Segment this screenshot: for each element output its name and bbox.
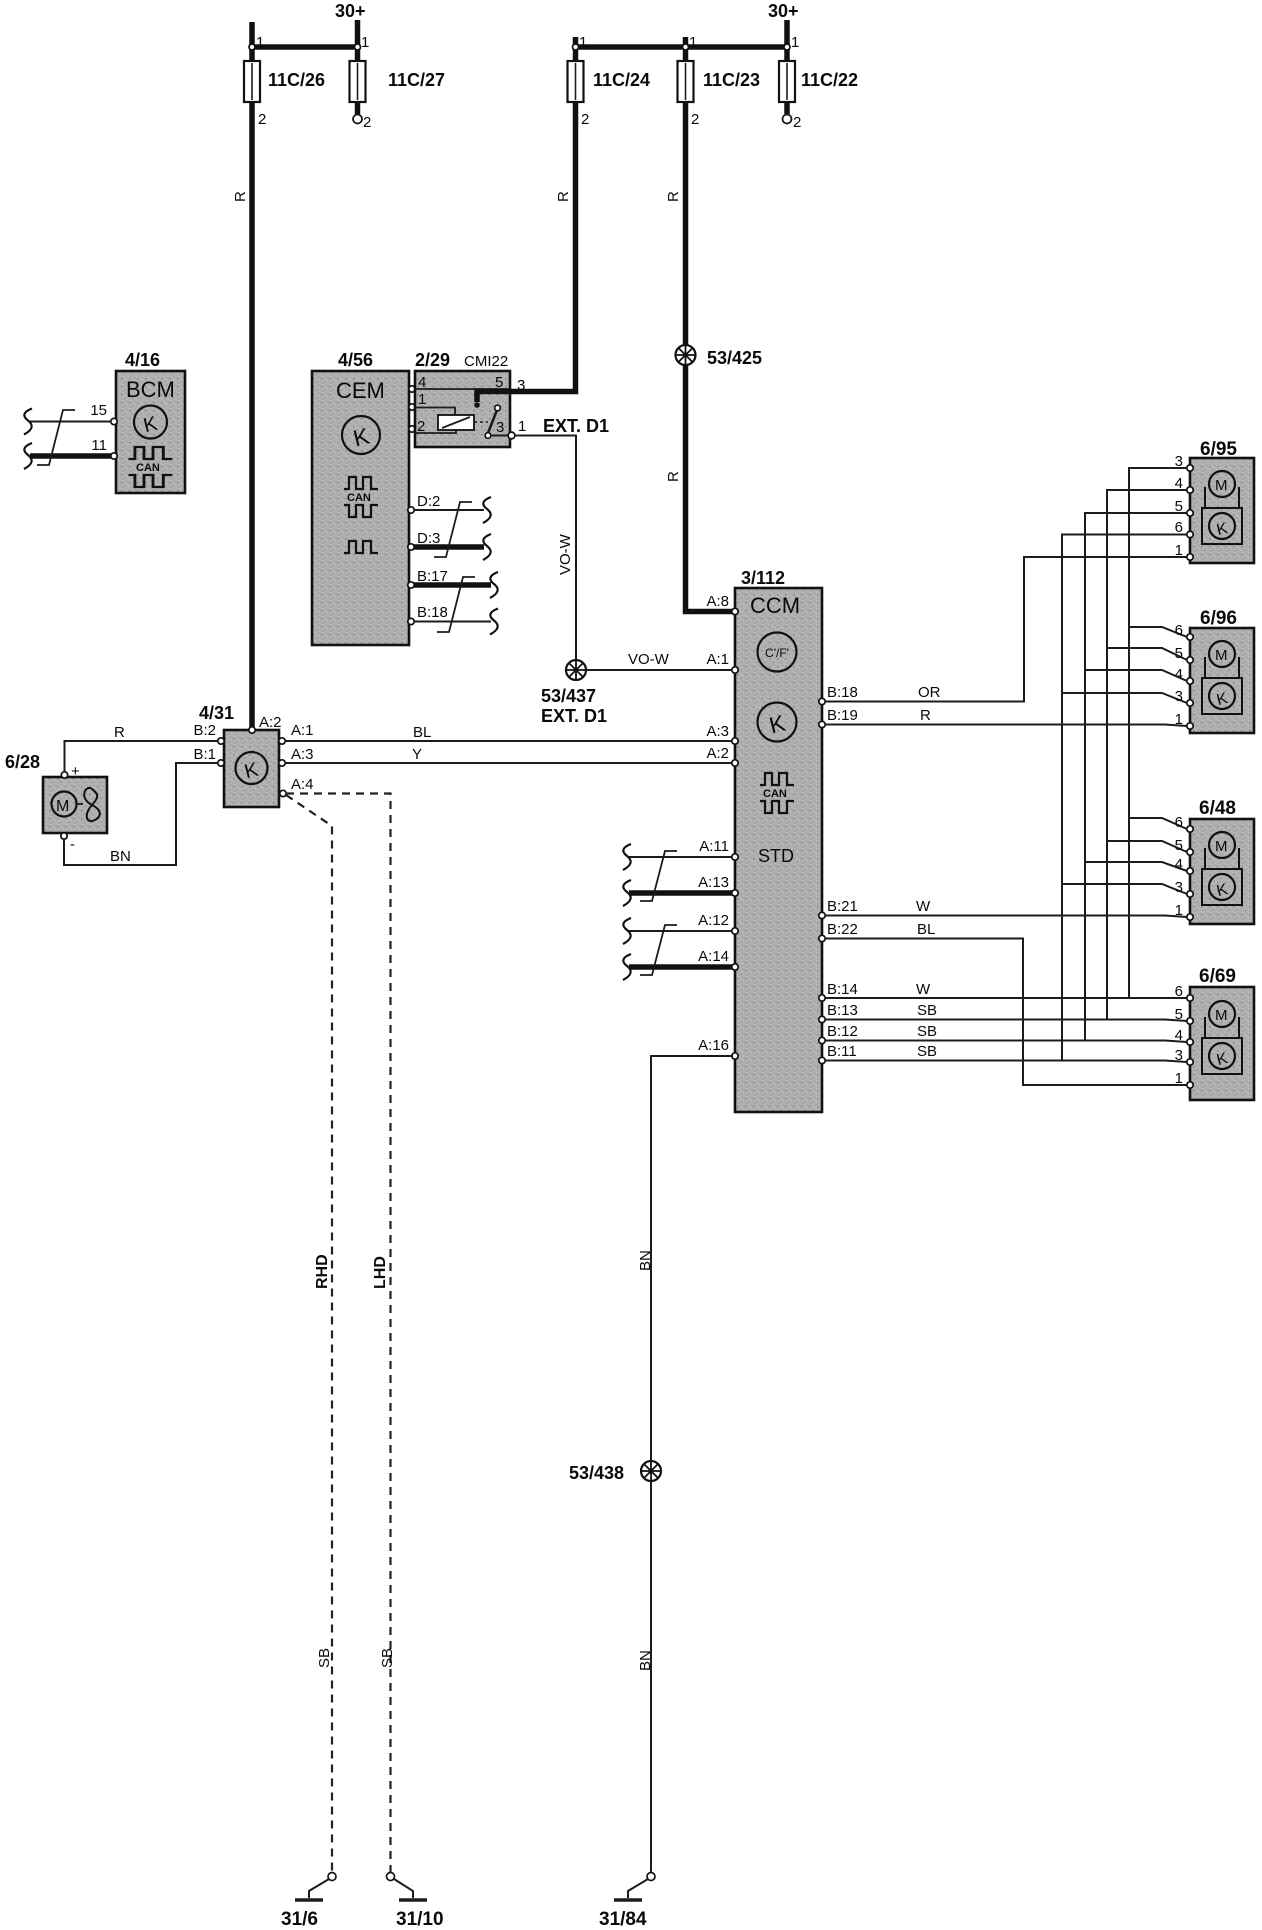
motor M symbol [1209,1001,1235,1027]
pin to 2/29:2 [409,426,415,432]
svg-text:SB: SB [917,1043,937,1060]
plus terminal [61,772,67,778]
pin 6 [1187,995,1193,1001]
wire pin 11 (thick) [30,453,111,459]
pin B:1 [218,760,224,766]
fuse 11C/23 [678,61,694,102]
svg-text:3: 3 [1175,1047,1183,1064]
wire R from 6/28 plus to 4/31 B:2 [65,741,219,772]
dashed wire RHD from A:4 [286,795,332,1873]
svg-text:A:2: A:2 [259,714,282,731]
svg-text:4/16: 4/16 [125,350,160,370]
svg-text:+: + [71,763,80,780]
svg-text:4/31: 4/31 [199,703,234,723]
wire B:17 (thick) [414,582,491,588]
svg-text:RHD: RHD [314,1254,331,1289]
pin B:12 [819,1037,825,1043]
svg-text:A:3: A:3 [706,723,729,740]
svg-text:6/48: 6/48 [1199,798,1236,819]
svg-text:CAN: CAN [347,492,371,504]
K box symbol [1202,678,1242,714]
svg-text:3: 3 [517,377,525,394]
pin 5 [1187,1018,1193,1024]
K box symbol [1202,869,1242,905]
svg-text:5: 5 [1175,498,1183,515]
pulse symbol CEM [344,541,378,553]
svg-text:CCM: CCM [750,593,800,618]
pin to 2/29:4 [409,386,415,392]
fuse 11C/27 [350,61,366,102]
svg-text:M: M [1215,838,1228,855]
svg-text:SB: SB [316,1648,333,1668]
svg-text:1: 1 [1175,542,1183,559]
svg-text:BN: BN [637,1650,654,1671]
svg-text:31/6: 31/6 [281,1909,318,1930]
pin B:11 [819,1057,825,1063]
wire pin 15 [30,421,111,423]
branch to 6/96 pin3 [1062,693,1187,703]
node pin1 11C/22 [784,44,790,50]
pin 3 [1187,891,1193,897]
wire BN from CCM A:16 to ground 31/84 [651,1056,733,1872]
bus wire vertical to 6/95 pin5 [1085,513,1187,1041]
wire top stub fuse 11C/26 [249,22,255,61]
CAN symbol CCM [760,773,794,785]
pin B:18 CEM [408,618,414,624]
internal divider row 3 [415,430,456,433]
wire 30+ to fuse 11C/27 [355,20,361,61]
wire W CCM B:14 to 6/69 pin6 [825,997,1187,999]
ground 31/84 [647,1873,655,1881]
K symbol CCM [758,703,797,742]
pin D:2 CEM [408,507,414,513]
svg-text:-: - [70,836,75,853]
pin 6 [1187,531,1193,537]
pin A:8 [732,608,738,614]
wire SB CCM B:12 to 6/69 pin4 [825,1041,1187,1043]
svg-text:4/56: 4/56 [338,350,373,370]
pin A:12 [732,928,738,934]
relay switch contact (thick stub) [477,392,511,403]
svg-text:11C/26: 11C/26 [268,70,325,90]
pin 3 [1187,1059,1193,1065]
wire BN from 6/28 minus to 4/31 B:1 [64,763,218,865]
pin A:3 [732,738,738,744]
K symbol BCM [134,406,167,439]
svg-text:B:11: B:11 [827,1043,857,1060]
motor M symbol [1209,471,1235,497]
svg-text:6/69: 6/69 [1199,966,1236,987]
pin B:17 CEM [408,582,414,588]
coil to switch dashed link [474,421,488,423]
ground 31/10 [387,1873,395,1881]
ground 31/6 [328,1873,336,1881]
svg-text:1: 1 [579,34,587,51]
svg-text:CMI22: CMI22 [464,353,508,370]
svg-text:1: 1 [791,34,799,51]
pin 1 [1187,914,1193,920]
bus wire left group [252,44,358,50]
wire R from 11C/24 to 2/29 pin 5 [511,102,576,392]
wire VO-W from splice to CCM A:1 [586,669,734,671]
svg-text:B:12: B:12 [827,1023,858,1040]
K box symbol [1202,508,1242,544]
svg-text:B:18: B:18 [417,604,448,621]
svg-text:2: 2 [793,114,801,131]
pin A:3 [279,760,285,766]
dashed wire LHD from A:4 [286,794,391,1874]
branch to 6/48 pin3 [1062,884,1187,894]
svg-text:1: 1 [418,391,426,408]
svg-text:BCM: BCM [126,377,175,402]
pin A:1 [732,667,738,673]
svg-text:6: 6 [1175,814,1183,831]
svg-text:6/28: 6/28 [5,752,40,772]
svg-text:3: 3 [1175,879,1183,896]
link M to fan [77,803,83,805]
svg-text:A:16: A:16 [698,1037,729,1054]
pin A:2 [732,760,738,766]
bus wire vertical to 6/95 pin4 [1107,490,1187,1020]
svg-text:SB: SB [917,1023,937,1040]
wire SB CCM B:11 to 6/69 pin3 [825,1061,1187,1063]
wire SB CCM B:13 to 6/69 pin5 [825,1020,1187,1022]
pin B:19 [819,721,825,727]
pin 3 [1187,700,1193,706]
pin B:13 [819,1016,825,1022]
svg-text:30+: 30+ [335,1,366,21]
fuse 11C/26 [244,61,260,102]
node pin1 11C/24 [573,44,579,50]
wire D:2 [414,509,484,511]
svg-text:A:8: A:8 [706,593,729,610]
wire R from 11C/23 to CCM A:8 [686,102,735,612]
pin D:3 CEM [408,544,414,550]
pin A:1 [279,738,285,744]
splice 53/438 [641,1461,661,1481]
svg-text:4: 4 [1175,475,1183,492]
svg-text:M: M [1215,647,1228,664]
minus terminal [61,833,67,839]
wire W CCM B:21 to 6/48 pin1 [825,916,1187,918]
svg-text:W: W [916,898,931,915]
pin A:14 [732,964,738,970]
relay switch arm [488,410,497,433]
svg-text:11C/27: 11C/27 [388,70,445,90]
pin 6 [1187,634,1193,640]
pin to 2/29:1 [409,404,415,410]
internal divider row 2 [415,408,455,416]
svg-text:EXT. D1: EXT. D1 [541,706,607,726]
fuse 11C/24 [568,61,584,102]
wire OR CCM B:18 to 6/95 pin1 [825,557,1187,702]
pin A:11 [732,854,738,860]
svg-text:11C/23: 11C/23 [703,70,760,90]
svg-text:2: 2 [363,114,371,131]
svg-text:1: 1 [518,418,526,435]
svg-text:VO-W: VO-W [628,651,670,668]
svg-text:BN: BN [110,848,131,865]
wire break [24,409,32,435]
svg-text:53/438: 53/438 [569,1463,624,1483]
node pin1 11C/26 [249,44,255,50]
pin 5 [1187,849,1193,855]
svg-text:30+: 30+ [768,1,799,21]
splice 53/437 [566,660,586,680]
svg-text:6: 6 [1175,622,1183,639]
internal divider row 1 [415,388,510,390]
motor M symbol [1209,832,1235,858]
svg-text:EXT. D1: EXT. D1 [543,416,609,436]
svg-text:B:13: B:13 [827,1002,858,1019]
pin 15 BCM [111,418,117,424]
svg-text:M: M [56,798,69,815]
svg-text:OR: OR [918,684,941,701]
svg-text:STD: STD [758,846,794,866]
svg-text:CAN: CAN [136,462,160,474]
wire A:11 [629,856,733,858]
svg-text:53/425: 53/425 [707,348,762,368]
bus wire right group [576,44,788,50]
node pin1 11C/27 [355,44,361,50]
svg-text:A:1: A:1 [291,722,314,739]
svg-text:R: R [665,191,682,202]
pin 5 [1187,657,1193,663]
svg-text:A:13: A:13 [698,874,729,891]
svg-text:31/84: 31/84 [599,1909,647,1930]
wire 30+ to fuse 11C/22 [784,20,790,61]
CAN symbol BCM [129,447,173,459]
svg-text:1: 1 [256,34,264,51]
svg-text:M: M [1215,477,1228,494]
svg-text:SB: SB [379,1648,396,1668]
svg-text:LHD: LHD [372,1256,389,1289]
C/F symbol [758,633,797,672]
pin B:22 [819,935,825,941]
CAN symbol CEM [344,477,378,489]
svg-text:6: 6 [1175,519,1183,536]
pin 11 BCM [111,453,117,459]
wire stub 11C/22 pin 2 terminator [784,102,790,114]
twisted pair slash D:2/D:3 [434,502,472,557]
svg-text:5: 5 [1175,1006,1183,1023]
svg-text:B:19: B:19 [827,707,858,724]
wire VO-W from 2/29 pin1 to splice 53/437 [515,436,576,661]
pin 4 [1187,1039,1193,1045]
svg-text:Y: Y [412,746,422,763]
pin 4 [1187,868,1193,874]
svg-text:1: 1 [1175,711,1183,728]
pin 5 [1187,510,1193,516]
wire top stub fuse 11C/23 [683,37,689,61]
svg-text:BL: BL [917,921,935,938]
svg-text:2: 2 [258,111,266,128]
svg-text:4: 4 [1175,1027,1183,1044]
svg-text:M: M [1215,1007,1228,1024]
motor M symbol [1209,641,1235,667]
wire BL 4/31 A:1 to CCM A:3 [285,740,733,742]
svg-text:A:1: A:1 [706,651,729,668]
pin 1 [1187,554,1193,560]
twisted pair slash B:17/B:18 [437,577,475,632]
svg-text:A:3: A:3 [291,746,314,763]
svg-text:R: R [114,724,125,741]
wire A:14 (thick) [629,964,733,970]
svg-text:31/10: 31/10 [396,1909,444,1930]
branch to 6/96 pin4 [1085,670,1187,681]
svg-text:5: 5 [495,374,503,391]
pin A:13 [732,890,738,896]
pin B:21 [819,912,825,918]
branch to 6/96 pin6 [1129,627,1187,637]
wire R from 11C/26 to 4/31 A:2 [249,102,255,729]
pin 3 [1187,465,1193,471]
branch to 6/48 pin4 [1085,862,1187,871]
branch to 6/96 pin5 [1107,648,1187,660]
svg-text:1: 1 [689,34,697,51]
bus wire vertical to 6/95 pin3 [1129,468,1187,998]
pin A:2 top [249,727,255,733]
K box symbol [1202,1038,1242,1074]
wire D:3 (thick) [414,544,484,550]
svg-text:2: 2 [691,111,699,128]
wire A:13 (thick) [629,890,733,896]
pin A:16 [732,1053,738,1059]
svg-text:B:1: B:1 [193,746,216,763]
wire B:18 [414,621,491,623]
svg-text:A:12: A:12 [698,912,729,929]
svg-text:53/437: 53/437 [541,686,596,706]
svg-text:3: 3 [1175,453,1183,470]
pin 4 [1187,678,1193,684]
relay coil [438,415,474,430]
svg-text:11: 11 [91,437,107,454]
svg-text:4: 4 [1175,666,1183,683]
svg-text:2/29: 2/29 [415,350,450,370]
svg-text:R: R [232,191,249,202]
wire R CCM B:19 to 6/96 pin1 [825,725,1187,727]
svg-text:B:18: B:18 [827,684,858,701]
pin 1 [1187,1082,1193,1088]
svg-text:2: 2 [417,418,425,435]
svg-text:R: R [665,471,682,482]
wire arm to pin 1 [490,435,509,437]
svg-text:1: 1 [1175,902,1183,919]
wire stub 11C/27 pin 2 terminator [355,102,361,114]
svg-text:A:2: A:2 [706,745,729,762]
branch to 6/48 pin6 [1129,818,1187,829]
bus wire vertical to 6/95 pin6 [1062,535,1187,1061]
motor M symbol [52,792,77,817]
svg-text:R: R [555,191,572,202]
twisted pair slash A:11/A:13 [640,851,677,901]
pin A:4 [280,790,286,796]
svg-text:15: 15 [90,402,107,419]
svg-text:W: W [916,981,931,998]
svg-text:A:4: A:4 [291,776,314,793]
svg-text:D:2: D:2 [417,493,440,510]
pin B:14 [819,995,825,1001]
svg-text:1: 1 [1175,1070,1183,1087]
svg-text:A:11: A:11 [699,838,729,855]
svg-text:B:14: B:14 [827,981,858,998]
pin 4 [1187,487,1193,493]
svg-text:11C/22: 11C/22 [801,70,858,90]
svg-text:B:21: B:21 [827,898,858,915]
svg-text:5: 5 [1175,645,1183,662]
svg-text:R: R [920,707,931,724]
fan symbol [84,788,100,821]
svg-text:4: 4 [1175,856,1183,873]
svg-text:11C/24: 11C/24 [593,70,650,90]
fuse 11C/22 [779,61,795,102]
svg-text:5: 5 [1175,837,1183,854]
svg-text:6/96: 6/96 [1200,608,1237,629]
svg-text:VO-W: VO-W [557,533,574,575]
wire Y 4/31 A:3 to CCM A:2 [285,762,733,764]
node pin1 11C/23 [683,44,689,50]
wire BL CCM B:22 to 6/69 pin1 [825,939,1187,1086]
twisted pair slash BCM [37,410,75,465]
K symbol 4/31 [236,752,268,784]
svg-text:3: 3 [496,419,504,436]
svg-text:2: 2 [581,111,589,128]
svg-text:3: 3 [1175,688,1183,705]
svg-text:1: 1 [361,34,369,51]
svg-text:B:22: B:22 [827,921,858,938]
pin 1 [1187,723,1193,729]
wire top stub fuse 11C/24 [573,37,579,61]
svg-text:A:14: A:14 [698,948,729,965]
pin B:18 [819,698,825,704]
svg-text:C'/F': C'/F' [765,646,789,660]
svg-text:CAN: CAN [763,788,787,800]
svg-text:B:2: B:2 [193,722,216,739]
svg-text:BL: BL [413,724,431,741]
svg-text:SB: SB [917,1002,937,1019]
K symbol CEM [342,416,380,454]
twisted pair slash A:12/A:14 [640,925,677,975]
wire break [24,443,32,469]
branch to 6/48 pin5 [1107,841,1187,852]
svg-text:BN: BN [637,1250,654,1271]
pin 1 of relay output [508,432,515,439]
pin B:2 [218,738,224,744]
wire A:12 [629,930,733,932]
svg-text:3/112: 3/112 [741,568,785,588]
pin 6 [1187,826,1193,832]
svg-text:6: 6 [1175,983,1183,1000]
svg-text:CEM: CEM [336,378,385,403]
svg-text:4: 4 [418,374,426,391]
splice 53/425 [676,345,696,365]
